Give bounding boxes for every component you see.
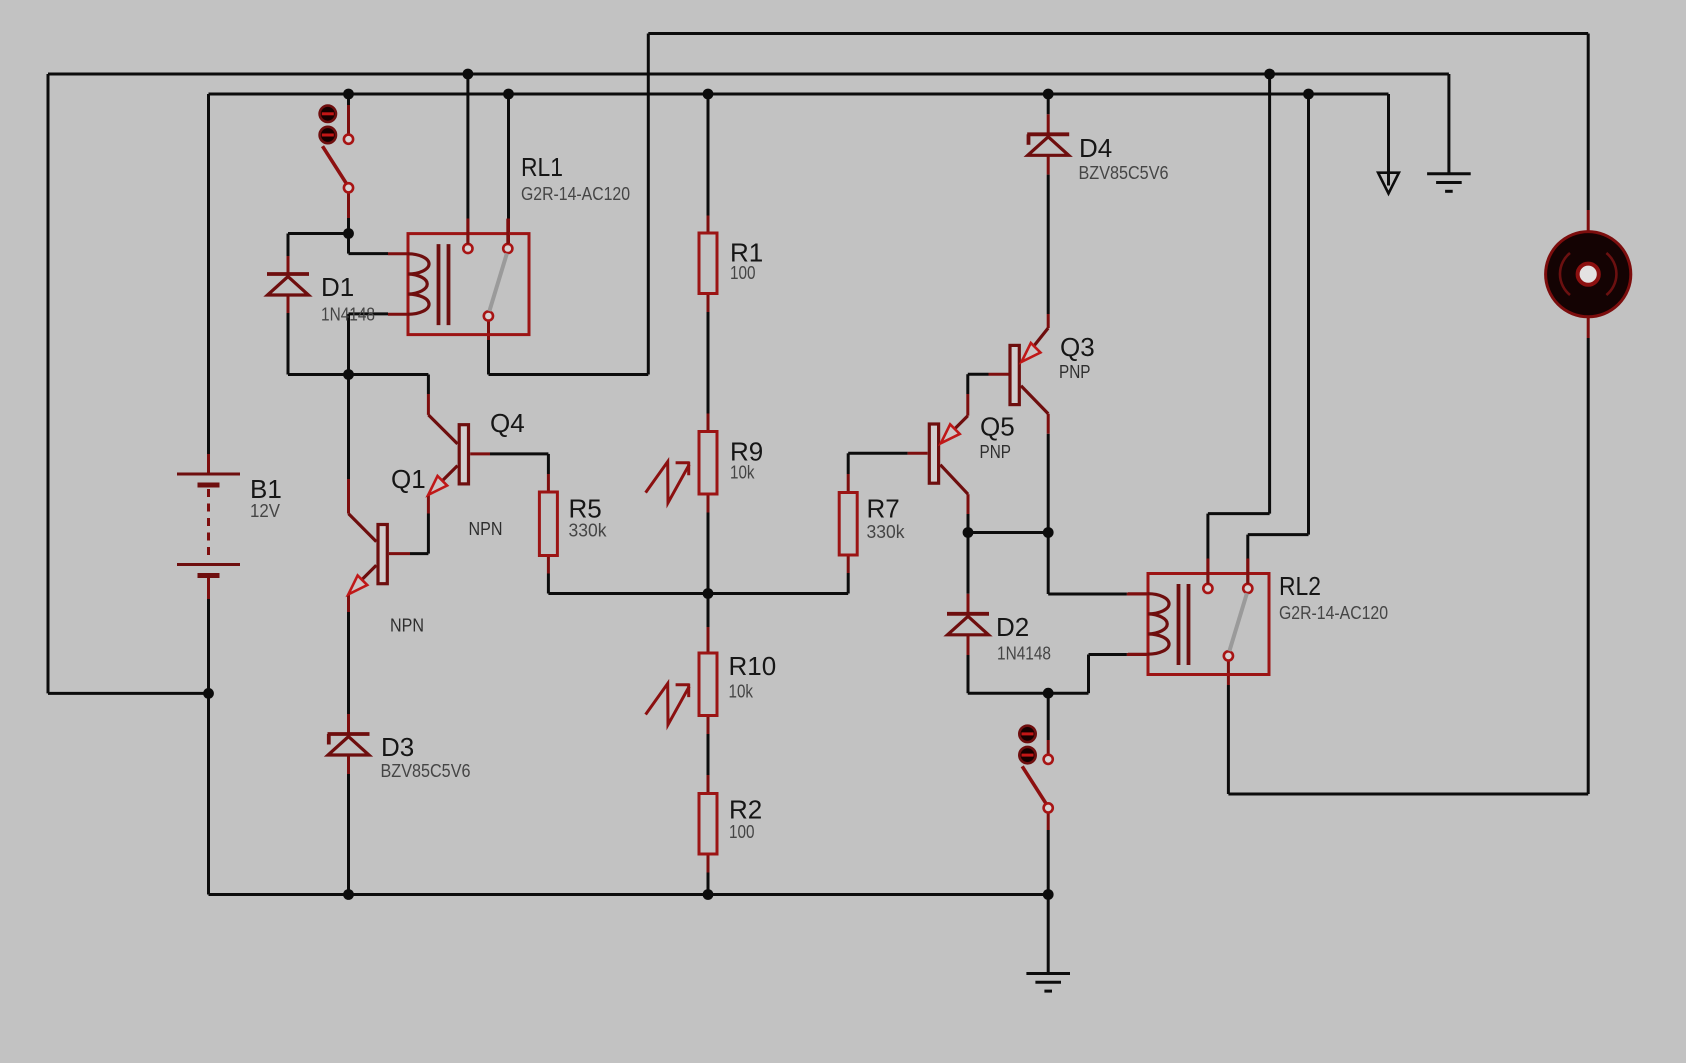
svg-text:1N4148: 1N4148 bbox=[321, 305, 375, 325]
svg-text:R7: R7 bbox=[867, 494, 900, 524]
svg-text:Q1: Q1 bbox=[391, 464, 426, 494]
svg-text:Q5: Q5 bbox=[980, 412, 1015, 442]
svg-text:PNP: PNP bbox=[980, 442, 1012, 462]
svg-text:R5: R5 bbox=[569, 494, 602, 524]
svg-text:10k: 10k bbox=[730, 463, 755, 483]
svg-text:10k: 10k bbox=[729, 682, 754, 702]
svg-text:R2: R2 bbox=[729, 795, 762, 825]
svg-text:D2: D2 bbox=[996, 612, 1029, 642]
svg-text:NPN: NPN bbox=[390, 616, 424, 636]
svg-text:RL1: RL1 bbox=[521, 152, 563, 182]
svg-text:BZV85C5V6: BZV85C5V6 bbox=[1079, 163, 1169, 183]
svg-text:D4: D4 bbox=[1079, 133, 1112, 163]
svg-text:D1: D1 bbox=[321, 272, 354, 302]
svg-text:Q3: Q3 bbox=[1060, 332, 1095, 362]
svg-text:G2R-14-AC120: G2R-14-AC120 bbox=[521, 184, 630, 204]
svg-text:12V: 12V bbox=[250, 501, 280, 521]
svg-text:D3: D3 bbox=[381, 732, 414, 762]
svg-text:PNP: PNP bbox=[1059, 362, 1091, 382]
svg-text:Q4: Q4 bbox=[490, 408, 525, 438]
svg-text:330k: 330k bbox=[867, 522, 906, 542]
svg-text:BZV85C5V6: BZV85C5V6 bbox=[381, 761, 471, 781]
svg-text:G2R-14-AC120: G2R-14-AC120 bbox=[1279, 603, 1388, 623]
svg-text:B1: B1 bbox=[250, 474, 282, 504]
svg-text:RL2: RL2 bbox=[1279, 571, 1321, 601]
svg-text:100: 100 bbox=[729, 822, 755, 842]
svg-text:R10: R10 bbox=[729, 651, 777, 681]
svg-text:NPN: NPN bbox=[469, 519, 503, 539]
svg-text:1N4148: 1N4148 bbox=[997, 644, 1051, 664]
svg-text:330k: 330k bbox=[569, 521, 608, 541]
svg-text:100: 100 bbox=[730, 263, 756, 283]
